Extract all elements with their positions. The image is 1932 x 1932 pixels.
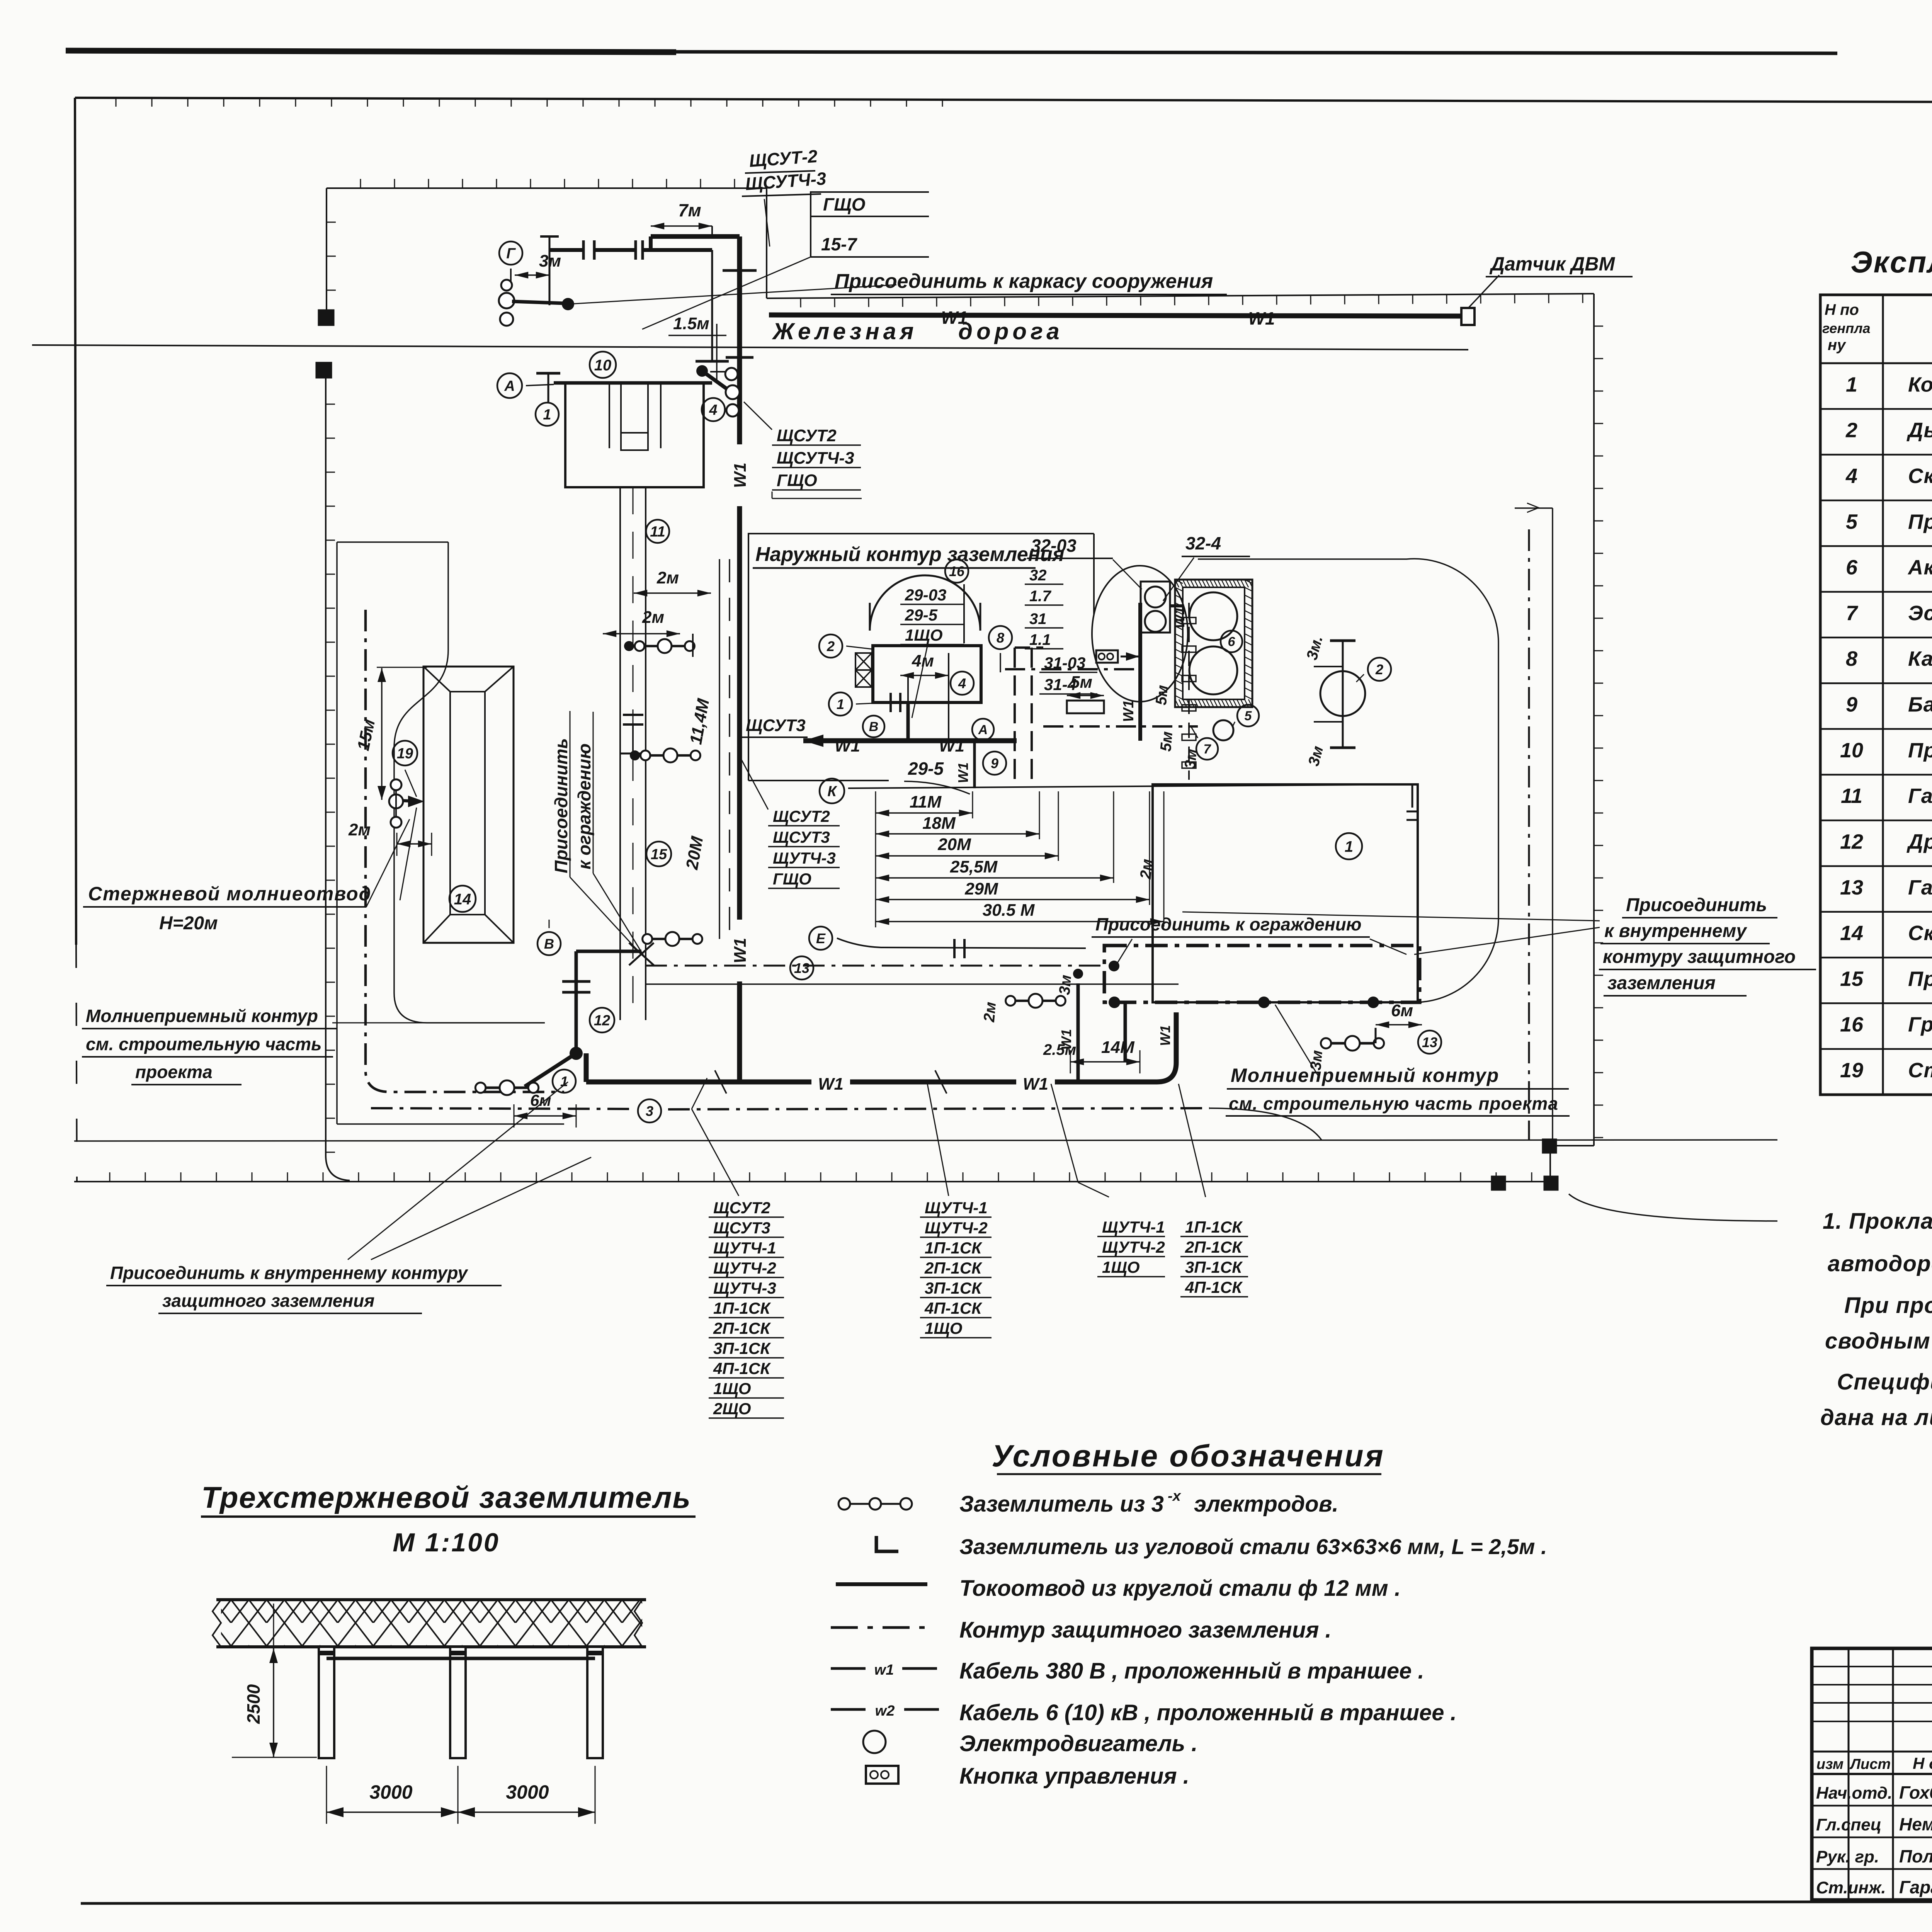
svg-text:1ЩО: 1ЩО bbox=[925, 1319, 963, 1337]
svg-text:Рук. гр.: Рук. гр. bbox=[1816, 1847, 1879, 1866]
svg-text:ЩСУТ2: ЩСУТ2 bbox=[713, 1199, 770, 1217]
naruzhny kontur zazemleniya box bbox=[748, 534, 1094, 781]
svg-text:5: 5 bbox=[1846, 510, 1858, 533]
electrode group near 13 bbox=[1323, 1042, 1382, 1045]
svg-text:-х: -х bbox=[1168, 1488, 1182, 1504]
building 12 drobilnoye otdeleniye contour bbox=[576, 950, 641, 953]
thin road line bottom bbox=[74, 1140, 1777, 1141]
svg-text:В: В bbox=[869, 719, 879, 734]
dash-dot contour horizontal y1880 bbox=[1043, 725, 1198, 728]
node A circle bbox=[497, 373, 522, 398]
svg-text:15: 15 bbox=[1840, 967, 1864, 990]
svg-text:Наружный контур заземления: Наружный контур заземления bbox=[755, 543, 1064, 566]
svg-text:Бак декарбонизированной воды: Бак декарбонизированной воды bbox=[1908, 693, 1932, 716]
svg-text:В: В bbox=[544, 936, 554, 952]
svg-text:3м: 3м bbox=[1056, 974, 1075, 995]
top scan edge line bbox=[66, 51, 676, 52]
svg-text:9: 9 bbox=[991, 755, 998, 771]
junction dots on contour bbox=[1109, 997, 1120, 1008]
svg-text:М 1:100: М 1:100 bbox=[393, 1528, 500, 1557]
circled 2 chimney bbox=[1368, 658, 1391, 681]
svg-text:1ЩО: 1ЩО bbox=[713, 1379, 751, 1398]
svg-text:1: 1 bbox=[837, 696, 844, 712]
svg-text:сводным планом инженерных к: сводным планом инженерных коммуникаций. bbox=[1825, 1328, 1932, 1354]
wire W1 cable along railroad bbox=[769, 315, 1461, 316]
svg-text:Н докум: Н докум bbox=[1913, 1754, 1932, 1772]
svg-text:Эстакада к аккумуляторным ба: Эстакада к аккумуляторным бакам bbox=[1908, 602, 1932, 625]
svg-text:1.1: 1.1 bbox=[1029, 631, 1051, 648]
electrode rods bbox=[319, 1647, 334, 1758]
svg-text:Г: Г bbox=[506, 246, 516, 262]
svg-text:2м: 2м bbox=[1137, 858, 1156, 880]
svg-text:3: 3 bbox=[646, 1103, 653, 1119]
svg-text:ГЩО: ГЩО bbox=[777, 471, 817, 490]
svg-text:автодорогами выполнить в асбо: автодорогами выполнить в асбоцементных т… bbox=[1828, 1251, 1932, 1276]
dash-dot line 3 bbox=[668, 1108, 1209, 1109]
svg-text:10: 10 bbox=[594, 357, 612, 374]
svg-text:Присоединить к внутреннему ко: Присоединить к внутреннему контуру bbox=[110, 1263, 468, 1283]
wire from electrodes to junction dot bbox=[512, 301, 565, 303]
dim 11m bbox=[876, 812, 973, 814]
svg-text:Н=20м: Н=20м bbox=[159, 913, 218, 934]
svg-text:ЩУТЧ-1: ЩУТЧ-1 bbox=[713, 1239, 776, 1257]
svg-text:3П-1СК: 3П-1СК bbox=[713, 1339, 771, 1357]
circled B bbox=[537, 932, 561, 955]
vertical thick drop from bldg4 bbox=[906, 702, 910, 741]
svg-text:7м: 7м bbox=[678, 200, 701, 220]
circled 9 bbox=[983, 752, 1006, 775]
svg-text:ЩУТЧ-2: ЩУТЧ-2 bbox=[1102, 1238, 1165, 1256]
circled 8 bbox=[989, 626, 1012, 649]
inner lightning contour with notch bbox=[394, 542, 545, 1023]
leaders from prisoedinit labels to contour bbox=[1370, 939, 1406, 954]
svg-text:Н по: Н по bbox=[1825, 301, 1859, 318]
accumulator tanks bldg 6 bbox=[1175, 580, 1252, 707]
diagonal connection and electrodes at 4 bbox=[696, 365, 708, 377]
earthing electrodes chain vertical at G bbox=[510, 269, 512, 288]
node G circle bbox=[499, 241, 522, 265]
svg-text:6м: 6м bbox=[1391, 1001, 1413, 1020]
svg-text:6: 6 bbox=[1228, 634, 1236, 649]
svg-text:Продувочный колодец с канало: Продувочный колодец с каналом bbox=[1908, 510, 1932, 533]
fence right vertical bbox=[1593, 294, 1595, 1146]
sheet frame bottom bbox=[81, 1901, 1932, 1903]
legend row 7: electric motor bbox=[863, 1731, 886, 1753]
branch down with W1 label bbox=[973, 741, 976, 788]
fence jog down bbox=[766, 188, 767, 298]
svg-text:ЩСУТ2: ЩСУТ2 bbox=[773, 807, 830, 825]
svg-text:Токоотвод из круглой стали: Токоотвод из круглой стали ф 12 мм . bbox=[959, 1576, 1401, 1601]
svg-text:W1: W1 bbox=[955, 762, 971, 783]
svg-text:электродов.: электродов. bbox=[1194, 1492, 1338, 1517]
svg-text:Экспликация зданий и сооруж: Экспликация зданий и сооружений bbox=[1851, 245, 1932, 279]
node 1 circle bbox=[536, 403, 559, 426]
svg-text:4: 4 bbox=[958, 675, 966, 691]
svg-text:Присоединить: Присоединить bbox=[1626, 895, 1767, 915]
svg-text:W1: W1 bbox=[1023, 1075, 1048, 1094]
building 1 kotelnaya bbox=[1153, 784, 1418, 1002]
svg-text:Присоединить к ограждению: Присоединить к ограждению bbox=[1095, 914, 1362, 934]
thick W1 vertical at gradirnya bbox=[1138, 603, 1142, 741]
svg-text:W1: W1 bbox=[941, 308, 968, 328]
svg-text:Котельная: Котельная bbox=[1908, 373, 1932, 396]
svg-text:3П-1СК: 3П-1СК bbox=[1185, 1258, 1243, 1276]
contour dash-dot vertical right bbox=[1528, 529, 1530, 1140]
circled 5 and well bbox=[1213, 720, 1233, 740]
circled 2 (node) bbox=[819, 634, 842, 658]
svg-text:Промежуточный штабель угля: Промежуточный штабель угля bbox=[1908, 967, 1932, 990]
svg-text:Лист: Лист bbox=[1849, 1756, 1891, 1772]
svg-text:к внутреннему: к внутреннему bbox=[1604, 921, 1747, 941]
svg-text:5: 5 bbox=[1245, 709, 1252, 723]
building 10 priyomnoye ustroystvo bbox=[554, 381, 712, 385]
svg-text:2П-1СК: 2П-1СК bbox=[924, 1259, 983, 1277]
svg-text:Нач.отд.: Нач.отд. bbox=[1816, 1784, 1892, 1803]
svg-text:см. строительную часть проек: см. строительную часть проекта bbox=[1229, 1094, 1558, 1114]
gallery N2 (11) twin lines bbox=[619, 487, 621, 1020]
svg-text:W1: W1 bbox=[818, 1075, 844, 1094]
dim 30.5m bbox=[876, 921, 1164, 922]
svg-text:ЩУТЧ-2: ЩУТЧ-2 bbox=[713, 1259, 776, 1277]
svg-text:Дымовая труба: Дымовая труба bbox=[1906, 419, 1932, 442]
svg-text:Гл.спец: Гл.спец bbox=[1816, 1815, 1881, 1834]
svg-text:ЩСУТЧ-3: ЩСУТЧ-3 bbox=[777, 449, 854, 468]
svg-text:Заземлитель из угловой стал: Заземлитель из угловой стали 63×63×6 мм,… bbox=[959, 1534, 1547, 1559]
svg-text:25,5М: 25,5М bbox=[950, 857, 998, 876]
svg-text:Приемное устройство: Приемное устройство bbox=[1908, 739, 1932, 762]
bus bar with insulator breaks (tokootvod) bbox=[549, 236, 551, 305]
thin contour left vertical bbox=[336, 542, 338, 1124]
svg-text:Склад реагентов: Склад реагентов bbox=[1908, 464, 1932, 488]
legend row 5: cable 380V W1 bbox=[831, 1667, 866, 1670]
svg-text:4м: 4м bbox=[912, 651, 934, 670]
svg-text:6м: 6м bbox=[530, 1091, 551, 1109]
svg-text:ЩУТЧ-1: ЩУТЧ-1 bbox=[1102, 1218, 1165, 1236]
leader from dome stack to bldg4 bbox=[912, 646, 927, 718]
svg-text:5м: 5м bbox=[1157, 731, 1176, 752]
svg-text:1: 1 bbox=[1846, 373, 1857, 396]
svg-text:w1: w1 bbox=[874, 1662, 894, 1678]
fence left vertical along coal yard bbox=[325, 370, 327, 1155]
svg-text:Стержневой молниеотвод: Стержневой молниеотвод bbox=[88, 883, 372, 905]
svg-text:Условные обозначения: Условные обозначения bbox=[992, 1439, 1384, 1473]
svg-text:Дробильное отделение: Дробильное отделение bbox=[1906, 830, 1932, 853]
svg-text:ЩСУТ3: ЩСУТ3 bbox=[746, 716, 806, 735]
svg-text:1.7: 1.7 bbox=[1029, 588, 1051, 605]
circled 1 node left bbox=[829, 692, 852, 716]
svg-text:2500: 2500 bbox=[243, 1684, 264, 1724]
dims 3000/3000 bbox=[326, 1766, 327, 1824]
svg-text:3000: 3000 bbox=[369, 1781, 412, 1803]
svg-text:1.5м: 1.5м bbox=[673, 314, 709, 333]
dim 20m bbox=[876, 855, 1058, 857]
svg-text:32-03: 32-03 bbox=[1031, 536, 1077, 556]
svg-text:Галерея н 2: Галерея н 2 bbox=[1908, 784, 1932, 808]
svg-text:9: 9 bbox=[1846, 693, 1857, 716]
svg-text:ЩСУТ3: ЩСУТ3 bbox=[713, 1219, 770, 1237]
road curve bottom right bbox=[1209, 1108, 1321, 1140]
svg-text:12: 12 bbox=[1840, 830, 1863, 853]
svg-text:32-4: 32-4 bbox=[1185, 533, 1221, 553]
dash-dot horizontal upper bbox=[1005, 668, 1134, 670]
svg-text:Склад угля V=7200 т: Склад угля V=7200 т bbox=[1908, 922, 1932, 945]
road contour loop right of bldg1 bbox=[1198, 559, 1498, 1002]
svg-text:Ст.инж.: Ст.инж. bbox=[1816, 1878, 1886, 1897]
svg-text:Железная: Железная bbox=[772, 318, 917, 344]
circled 3 bbox=[638, 1099, 661, 1122]
svg-text:1ЩО: 1ЩО bbox=[1102, 1258, 1140, 1276]
stack area 15 twin verticals bbox=[719, 559, 720, 939]
fence top-left segment bbox=[327, 187, 767, 189]
svg-text:31: 31 bbox=[1029, 611, 1047, 628]
push button symbol with arrow bbox=[1096, 650, 1118, 663]
leader horizontal to contour bbox=[332, 1022, 545, 1024]
svg-text:31-03: 31-03 bbox=[1044, 654, 1085, 672]
dim 29m bbox=[876, 899, 1150, 900]
road inner vertical bbox=[1552, 508, 1553, 1146]
circled 19 rod arrester bbox=[393, 741, 417, 765]
svg-text:13: 13 bbox=[1422, 1034, 1437, 1050]
svg-text:Электродвигатель .: Электродвигатель . bbox=[959, 1731, 1197, 1756]
X junction mark bbox=[629, 943, 654, 965]
chimney bldg 2 with grounds bbox=[1342, 641, 1344, 748]
svg-text:ГЩО: ГЩО bbox=[823, 194, 866, 214]
svg-text:11: 11 bbox=[1841, 784, 1862, 808]
svg-text:к ограждению: к ограждению bbox=[574, 743, 594, 869]
circled 1 kotelnaya bbox=[1336, 833, 1362, 859]
electrode group right bottom bbox=[1008, 1000, 1063, 1002]
svg-text:генпла: генпла bbox=[1822, 320, 1871, 336]
circled 7 bbox=[1196, 738, 1218, 760]
svg-text:15-7: 15-7 bbox=[821, 234, 857, 254]
leader from GSchO to bus bbox=[642, 257, 811, 329]
svg-text:1: 1 bbox=[1345, 838, 1353, 855]
thick risers near 14m bbox=[1077, 983, 1080, 1082]
svg-text:20М: 20М bbox=[937, 835, 971, 854]
svg-text:Спецификация на устройство: Спецификация на устройство молниезащиты bbox=[1837, 1369, 1932, 1395]
svg-text:ГЩО: ГЩО bbox=[773, 870, 811, 888]
legend row 3: down conductor bbox=[836, 1582, 927, 1586]
thin line from E bbox=[837, 938, 1086, 948]
title block left grid horizontals bbox=[1812, 1666, 1932, 1667]
svg-text:12: 12 bbox=[594, 1013, 610, 1029]
svg-text:W1: W1 bbox=[1157, 1025, 1173, 1046]
insulator breaks on gallery bbox=[623, 714, 643, 716]
junction dot 12 bbox=[570, 1047, 583, 1060]
bus upper level 7m segment bbox=[649, 236, 653, 250]
svg-text:2м: 2м bbox=[981, 1001, 999, 1023]
W1 labels on vertical riser bbox=[730, 444, 749, 506]
circled 14 bbox=[449, 886, 476, 912]
svg-text:18М: 18М bbox=[922, 814, 956, 833]
electrode group on gallery bbox=[637, 645, 692, 647]
circled K bbox=[820, 779, 844, 803]
svg-text:2: 2 bbox=[1845, 419, 1857, 442]
svg-text:1П-1СК: 1П-1СК bbox=[925, 1239, 983, 1257]
svg-text:ЩУТЧ-1: ЩУТЧ-1 bbox=[925, 1199, 988, 1217]
svg-text:ЩУТЧ-3: ЩУТЧ-3 bbox=[773, 849, 836, 867]
svg-text:W1: W1 bbox=[731, 938, 750, 963]
protective earthing contour dash-dot around coal yard bbox=[366, 610, 564, 1092]
svg-text:Канал от котельной до склада: Канал от котельной до склада реагентов bbox=[1908, 647, 1932, 670]
overpass 7 line with supports bbox=[1188, 603, 1190, 780]
motor circles pair at gradirnya bbox=[1141, 582, 1170, 633]
railroad line Zheleznaya doroga bbox=[32, 345, 1468, 350]
table grid bbox=[1820, 295, 1932, 1095]
svg-text:Стержневой молниеотвод Н=20м: Стержневой молниеотвод Н=20м bbox=[1908, 1059, 1932, 1082]
svg-text:2: 2 bbox=[827, 638, 835, 654]
svg-text:W1: W1 bbox=[731, 463, 750, 488]
svg-text:13: 13 bbox=[794, 960, 810, 976]
circled 1 bottom bbox=[553, 1070, 576, 1093]
circled 12 bbox=[590, 1008, 614, 1032]
svg-text:контуру защитного: контуру защитного bbox=[1603, 947, 1796, 967]
svg-text:ну: ну bbox=[1828, 337, 1846, 354]
svg-text:7: 7 bbox=[1846, 602, 1859, 625]
svg-text:ЩУТЧ-3: ЩУТЧ-3 bbox=[713, 1279, 776, 1297]
svg-text:К: К bbox=[827, 784, 837, 800]
title block left grid verticals bbox=[1848, 1648, 1850, 1900]
coal pile building 14 (trapezoid prism) bbox=[423, 667, 514, 943]
electrode group mid bbox=[643, 754, 698, 757]
svg-text:W1: W1 bbox=[1058, 1029, 1074, 1050]
building 4 sklad reagentov bbox=[873, 646, 981, 702]
svg-text:W1: W1 bbox=[939, 736, 964, 755]
circled 4 in bldg bbox=[951, 672, 974, 695]
svg-text:Немец: Немец bbox=[1899, 1814, 1932, 1834]
svg-text:изм: изм bbox=[1816, 1756, 1844, 1772]
svg-text:1: 1 bbox=[543, 407, 551, 423]
svg-text:4П-1СК: 4П-1СК bbox=[1185, 1278, 1243, 1296]
svg-text:Кабель 380 В , проложенный в: Кабель 380 В , проложенный в траншее . bbox=[959, 1658, 1424, 1684]
legend row 6: cable 6(10)kV W2 bbox=[831, 1708, 866, 1711]
svg-text:При прокладке кабельных сет: При прокладке кабельных сетей руководств… bbox=[1844, 1293, 1932, 1318]
svg-text:14М: 14М bbox=[1101, 1038, 1135, 1057]
svg-text:4: 4 bbox=[709, 402, 717, 418]
fence bottom corner bbox=[1550, 1145, 1594, 1146]
svg-text:15: 15 bbox=[651, 847, 667, 863]
svg-text:29-5: 29-5 bbox=[905, 606, 938, 624]
title block outer bbox=[1812, 1648, 1932, 1900]
leader to label prisoedinit k karkasu bbox=[568, 285, 896, 304]
thin contour bottom edge bbox=[337, 1123, 564, 1125]
fence upper-right segment bbox=[767, 294, 1594, 298]
fence bottom long segment bbox=[74, 1181, 1550, 1182]
svg-text:w2: w2 bbox=[875, 1703, 895, 1719]
svg-text:2м: 2м bbox=[348, 820, 371, 839]
sensor DVM square bbox=[1461, 308, 1475, 325]
junction squares bottom bbox=[1543, 1139, 1556, 1153]
svg-text:1ЩО: 1ЩО bbox=[905, 626, 943, 644]
svg-text:10: 10 bbox=[1840, 739, 1863, 762]
svg-text:W1: W1 bbox=[1248, 308, 1275, 328]
svg-text:16: 16 bbox=[949, 563, 965, 579]
svg-text:Градирня: Градирня bbox=[1908, 1013, 1932, 1036]
svg-text:29М: 29М bbox=[964, 879, 998, 898]
svg-text:Кабель 6 (10) кВ , проложенны: Кабель 6 (10) кВ , проложенный в траншее… bbox=[959, 1700, 1457, 1725]
svg-text:3П-1СК: 3П-1СК bbox=[925, 1279, 983, 1297]
svg-text:31-4: 31-4 bbox=[1044, 675, 1077, 694]
legend row 2: angle steel earthing bbox=[876, 1536, 898, 1551]
small marks T on W1 bottom bbox=[935, 1070, 947, 1094]
ground T left of bldg10 bbox=[548, 373, 549, 402]
svg-text:W1: W1 bbox=[835, 736, 860, 755]
svg-text:13: 13 bbox=[1840, 876, 1863, 899]
svg-text:дорога: дорога bbox=[958, 318, 1063, 344]
svg-text:дана на листе 38 .: дана на листе 38 . bbox=[1820, 1405, 1932, 1430]
svg-text:11М: 11М bbox=[910, 793, 942, 811]
node 4 circle bbox=[702, 398, 725, 421]
svg-text:Е: Е bbox=[816, 930, 826, 946]
svg-text:8: 8 bbox=[1846, 647, 1857, 670]
circled B / A under bldg4 bbox=[863, 716, 884, 737]
legend row 1: 3-electrode earthing bbox=[844, 1503, 906, 1505]
thin line from K to bldg 1 top bbox=[848, 784, 1418, 788]
svg-text:2ЩО: 2ЩО bbox=[713, 1400, 751, 1418]
svg-text:ЩУТЧ-2: ЩУТЧ-2 bbox=[925, 1219, 988, 1237]
svg-text:29-03: 29-03 bbox=[905, 586, 946, 604]
svg-text:Поляков: Поляков bbox=[1899, 1846, 1932, 1866]
circled 10 bbox=[590, 352, 616, 378]
svg-text:Присоединить к каркасу сооруж: Присоединить к каркасу сооружения bbox=[835, 270, 1213, 293]
circled 13 bbox=[790, 956, 813, 980]
dim 25.5m bbox=[876, 877, 1114, 879]
circled 15 bbox=[646, 842, 671, 866]
svg-text:ЩСУТ3: ЩСУТ3 bbox=[773, 828, 830, 846]
svg-text:4: 4 bbox=[1845, 464, 1857, 488]
svg-text:Молниеприемный контур: Молниеприемный контур bbox=[86, 1006, 318, 1026]
circled 16 bbox=[945, 560, 968, 583]
svg-text:11: 11 bbox=[650, 524, 665, 540]
svg-text:4П-1СК: 4П-1СК bbox=[924, 1299, 983, 1317]
svg-text:Гохбойм: Гохбойм bbox=[1899, 1782, 1932, 1803]
svg-text:30.5 М: 30.5 М bbox=[983, 901, 1035, 920]
svg-text:А: А bbox=[504, 378, 515, 395]
svg-text:14: 14 bbox=[454, 891, 471, 908]
wire diagonal to electrodes bbox=[525, 1053, 576, 1087]
sheet frame top bbox=[75, 98, 1932, 104]
electrode chains at chimney bbox=[1314, 666, 1343, 667]
gradirnya oval bbox=[1092, 566, 1188, 702]
thin road line bbox=[645, 983, 1179, 985]
dim 2500 vertical bbox=[273, 1648, 274, 1757]
svg-text:5м: 5м bbox=[1153, 684, 1171, 706]
svg-text:Гаража: Гаража bbox=[1899, 1877, 1932, 1897]
leader to vnutr konturu label bbox=[1414, 927, 1600, 954]
legend row 8: control button bbox=[866, 1766, 898, 1784]
dim 18m bbox=[876, 833, 1039, 835]
svg-text:Кнопка управления .: Кнопка управления . bbox=[959, 1764, 1189, 1789]
dash-dot line with 13 bbox=[645, 965, 1105, 967]
fence vertical upper segment to railroad bbox=[326, 188, 327, 312]
svg-text:19: 19 bbox=[397, 746, 413, 762]
connecting strip bbox=[327, 1657, 595, 1660]
bldg4 bottom bus with break bbox=[873, 701, 981, 704]
svg-text:8: 8 bbox=[997, 630, 1004, 646]
svg-text:6: 6 bbox=[1846, 556, 1858, 579]
electrode chain bottom left bbox=[478, 1087, 536, 1089]
svg-text:см. строительную часть: см. строительную часть bbox=[86, 1034, 321, 1054]
svg-text:Трехстержневой заземлитель: Трехстержневой заземлитель bbox=[201, 1480, 691, 1514]
svg-text:29-5: 29-5 bbox=[908, 759, 944, 779]
svg-text:2П-1СК: 2П-1СК bbox=[713, 1319, 771, 1337]
dome arc (arka) bbox=[870, 575, 980, 631]
svg-text:Молниеприемный контур: Молниеприемный контур bbox=[1231, 1065, 1499, 1086]
svg-text:Присоединить: Присоединить bbox=[551, 738, 571, 873]
wire W1 bottom horizontal bbox=[586, 1080, 1157, 1085]
svg-text:1. Прокладку кабелей под же: 1. Прокладку кабелей под железной дорого… bbox=[1823, 1209, 1932, 1234]
svg-text:ЩСУТ2: ЩСУТ2 bbox=[777, 426, 837, 445]
